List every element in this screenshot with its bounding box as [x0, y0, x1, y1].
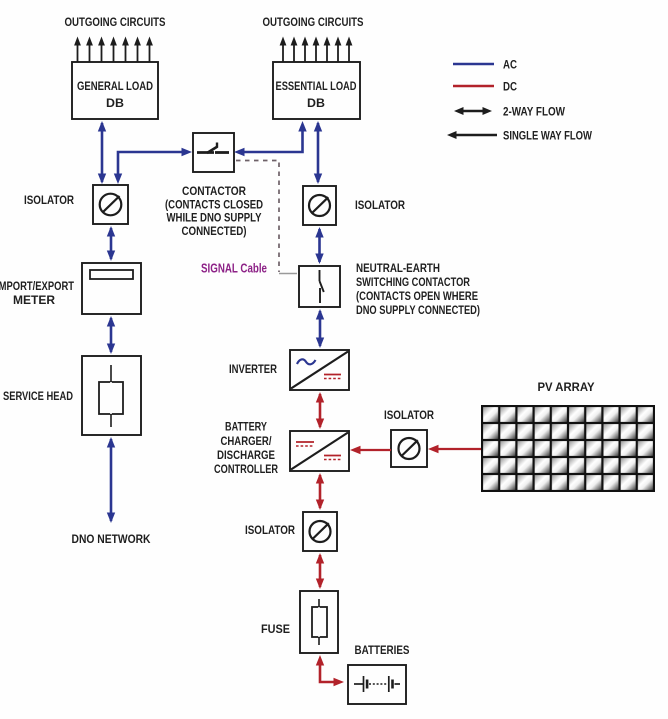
svg-text:WHILE DNO SUPPLY: WHILE DNO SUPPLY	[167, 211, 262, 225]
svg-text:OUTGOING CIRCUITS: OUTGOING CIRCUITS	[65, 15, 166, 29]
isolator (DC side)	[303, 512, 337, 551]
PV array	[482, 406, 654, 491]
wire: essential DB to right isolator (2-way AC)	[314, 121, 322, 184]
svg-text:BATTERIES: BATTERIES	[355, 643, 410, 657]
svg-text:DISCHARGE: DISCHARGE	[217, 448, 275, 462]
batteries	[348, 665, 406, 704]
svg-text:CHARGER/: CHARGER/	[221, 434, 273, 448]
svg-text:BATTERY: BATTERY	[225, 420, 267, 434]
wire: PV array to PV isolator (DC)	[428, 445, 482, 453]
svg-text:GENERAL LOAD: GENERAL LOAD	[77, 79, 153, 93]
svg-text:INVERTER: INVERTER	[229, 362, 277, 376]
svg-text:ISOLATOR: ISOLATOR	[245, 523, 295, 537]
legend: DC line	[453, 80, 517, 94]
general load DB	[72, 62, 158, 119]
outgoing circuit arrows (essential load DB)	[280, 37, 353, 63]
svg-text:ISOLATOR: ISOLATOR	[355, 198, 405, 212]
fuse	[300, 591, 338, 653]
wire: PV isolator to battery charger (DC)	[350, 446, 391, 454]
svg-text:DB: DB	[106, 96, 124, 110]
svg-text:METER: METER	[13, 293, 55, 307]
svg-text:OUTGOING CIRCUITS: OUTGOING CIRCUITS	[263, 15, 364, 29]
essential load DB	[273, 62, 360, 119]
svg-text:FUSE: FUSE	[261, 622, 290, 636]
label: NEUTRAL-EARTH SWITCHING CONTACTOR (CONTACTS OPEN WHERE DNO SUPPLY CONNECTED)	[356, 261, 480, 317]
legend: AC line	[453, 58, 517, 72]
svg-text:SWITCHING CONTACTOR: SWITCHING CONTACTOR	[356, 275, 470, 289]
label: IMPORT/EXPORT METER	[0, 279, 75, 307]
svg-text:SIGNAL Cable: SIGNAL Cable	[201, 262, 267, 276]
svg-text:ISOLATOR: ISOLATOR	[24, 193, 74, 207]
wire: battery charger to DC isolator (2-way DC)	[316, 473, 324, 510]
svg-text:SINGLE WAY FLOW: SINGLE WAY FLOW	[503, 129, 593, 143]
svg-text:AC: AC	[503, 58, 517, 72]
wire: meter to service head (2-way AC)	[107, 316, 115, 354]
import/export meter	[82, 263, 141, 314]
wire: inverter to battery charger (2-way DC)	[316, 392, 324, 429]
svg-text:CONTACTOR: CONTACTOR	[182, 184, 246, 198]
contactor	[193, 133, 234, 172]
svg-text:CONTROLLER: CONTROLLER	[214, 462, 278, 476]
svg-text:ESSENTIAL LOAD: ESSENTIAL LOAD	[276, 79, 357, 93]
service head	[82, 356, 141, 435]
neutral-earth switching contactor	[299, 266, 340, 307]
wire: general DB to left isolator (2-way AC)	[98, 121, 106, 184]
wire: NE contactor to inverter (2-way AC)	[316, 309, 324, 348]
wire: service head to DNO network (2-way AC)	[107, 437, 115, 523]
wire: left isolator branch to contactor (AC)	[114, 148, 192, 184]
battery charger / discharge controller	[290, 431, 349, 471]
svg-text:IMPORT/EXPORT: IMPORT/EXPORT	[0, 279, 75, 293]
isolator (general side)	[93, 185, 128, 224]
label: CONTACTOR (CONTACTS CLOSED WHILE DNO SUPPLY CONNECTED)	[165, 184, 263, 238]
svg-text:DNO NETWORK: DNO NETWORK	[72, 532, 151, 546]
isolator (PV side)	[391, 430, 427, 467]
svg-text:DB: DB	[307, 96, 325, 110]
svg-text:DNO SUPPLY CONNECTED): DNO SUPPLY CONNECTED)	[356, 303, 480, 317]
wire: DC isolator to fuse (2-way DC)	[316, 553, 324, 589]
svg-text:(CONTACTS CLOSED: (CONTACTS CLOSED	[165, 198, 263, 212]
wire: fuse to batteries (DC, bent)	[316, 655, 344, 686]
inverter	[290, 350, 349, 390]
legend: single way flow arrow	[447, 129, 593, 143]
isolator (essential side)	[303, 186, 336, 225]
legend: 2-way flow arrow	[454, 105, 566, 119]
svg-text:2-WAY FLOW: 2-WAY FLOW	[503, 105, 566, 119]
svg-text:CONNECTED): CONNECTED)	[182, 224, 247, 238]
svg-text:SERVICE HEAD: SERVICE HEAD	[3, 389, 73, 403]
svg-text:ISOLATOR: ISOLATOR	[384, 408, 434, 422]
svg-text:DC: DC	[503, 80, 517, 94]
signal cable (dashed)	[236, 161, 297, 274]
wire: contactor to essential DB (AC, bent)	[234, 121, 307, 156]
svg-text:(CONTACTS OPEN WHERE: (CONTACTS OPEN WHERE	[356, 289, 478, 303]
outgoing circuit arrows (general load DB)	[74, 37, 153, 63]
svg-text:NEUTRAL-EARTH: NEUTRAL-EARTH	[356, 261, 440, 275]
wire: right isolator to NE switching contactor (2-way AC)	[315, 227, 323, 264]
wire: left isolator to import/export meter (2-way AC)	[107, 226, 115, 261]
label: BATTERY CHARGER/ DISCHARGE CONTROLLER	[214, 420, 278, 477]
svg-text:PV ARRAY: PV ARRAY	[538, 380, 596, 394]
